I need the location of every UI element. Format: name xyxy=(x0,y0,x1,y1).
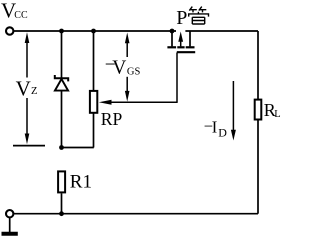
wire node A (zener/R1 to RP bottom) xyxy=(62,147,94,149)
transistor Q1 P-channel MOSFET xyxy=(167,31,195,52)
label P管 xyxy=(176,7,208,29)
wire right rail upper xyxy=(257,31,259,100)
junction dot zener / top rail xyxy=(59,29,64,34)
wire right rail lower xyxy=(257,120,259,214)
zener diode DZ xyxy=(55,31,68,148)
wire bottom rail xyxy=(14,213,258,215)
arrow -VGS (double headed measurement) xyxy=(112,33,140,102)
ground xyxy=(2,218,18,234)
label RL xyxy=(264,100,281,120)
wire drain to RL (top right) xyxy=(185,30,258,32)
label -VGS xyxy=(105,55,141,79)
junction dot source / top rail xyxy=(170,29,175,34)
potentiometer RP xyxy=(90,31,97,148)
arrow -ID (drain current) xyxy=(231,81,236,141)
resistor RL xyxy=(255,100,262,120)
resistor R1 xyxy=(58,171,65,213)
arrow VZ (double headed measurement) xyxy=(15,32,44,144)
svg-text:CC: CC xyxy=(14,10,28,21)
svg-text:D: D xyxy=(218,126,227,140)
terminal VCC xyxy=(6,27,13,34)
svg-text:RP: RP xyxy=(101,109,123,129)
svg-text:P: P xyxy=(176,7,187,29)
svg-text:L: L xyxy=(274,109,280,120)
junction dot node A xyxy=(59,145,64,150)
svg-text:Z: Z xyxy=(31,86,37,97)
label -ID xyxy=(204,117,227,140)
junction dot RP / top rail xyxy=(91,29,96,34)
svg-text:V: V xyxy=(112,58,126,79)
label VZ xyxy=(16,76,38,100)
wire top rail VCC to MOSFET source xyxy=(14,30,176,32)
label VCC xyxy=(1,0,28,22)
svg-text:I: I xyxy=(212,118,218,137)
wire gate lead xyxy=(176,53,178,103)
RP wiper arrow xyxy=(99,100,177,105)
terminal ground xyxy=(6,210,13,217)
svg-text:R1: R1 xyxy=(70,171,92,192)
svg-text:V: V xyxy=(16,76,31,100)
junction dot R1 / bottom rail xyxy=(59,211,64,216)
svg-text:GS: GS xyxy=(127,67,141,78)
wire VZ reference bar xyxy=(13,145,45,147)
